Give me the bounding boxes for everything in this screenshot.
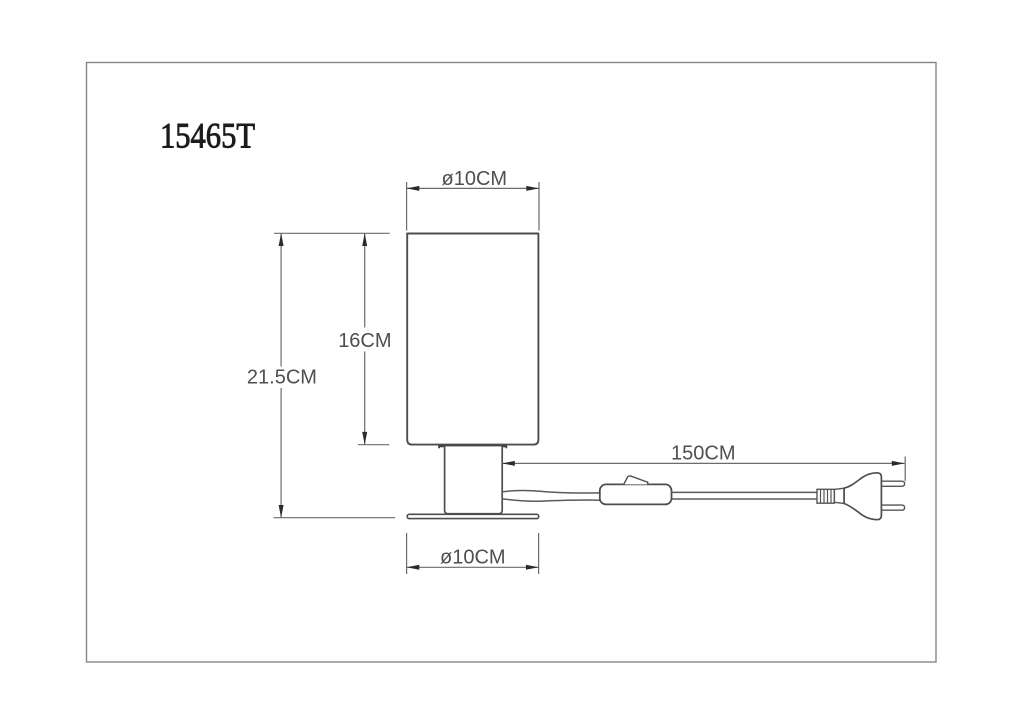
inline switch body <box>600 484 672 504</box>
shade collar line <box>439 446 506 448</box>
cord straight segment (switch to plug) <box>672 492 818 499</box>
svg-text:16CM: 16CM <box>338 330 391 352</box>
dim 21.5CM arrows <box>279 233 284 517</box>
plug collar <box>834 488 844 503</box>
dim top ø10CM line <box>407 187 539 189</box>
lamp stem <box>445 446 503 513</box>
dim bottom ø10CM extension lines <box>407 533 539 574</box>
dim bottom ø10CM line <box>407 566 539 568</box>
base plate <box>407 514 539 518</box>
svg-text:15465T: 15465T <box>160 115 255 155</box>
dim bottom ø10CM arrows <box>407 565 539 570</box>
dim shared top extension line <box>274 232 390 234</box>
dim top ø10CM arrows <box>407 186 539 191</box>
dim 16CM line <box>364 233 366 444</box>
dim top ø10CM extension lines <box>407 182 539 231</box>
plug strain relief ribs <box>817 489 834 503</box>
dim 150CM extension line <box>904 457 906 481</box>
svg-text:ø10CM: ø10CM <box>442 168 508 190</box>
plug body bell <box>844 473 881 520</box>
dim 16CM label <box>338 330 391 352</box>
title 15465T <box>160 115 255 155</box>
svg-text:21.5CM: 21.5CM <box>247 366 317 388</box>
dim 150CM label <box>671 443 735 465</box>
dim 21.5CM label <box>247 366 317 388</box>
dim 21.5CM bottom extension line <box>274 517 396 519</box>
svg-text:ø10CM: ø10CM <box>440 547 506 569</box>
svg-text:150CM: 150CM <box>671 443 735 465</box>
cord wavy segment (stem to switch) <box>502 490 600 501</box>
lamp shade <box>407 234 538 445</box>
border frame <box>87 63 937 663</box>
dim bottom ø10CM label <box>440 547 506 569</box>
dim 16CM bottom extension line <box>358 444 389 446</box>
dim 16CM arrows <box>362 233 367 444</box>
dim 150CM arrows <box>502 461 904 466</box>
dim 150CM line <box>502 462 904 464</box>
dim 21.5CM line <box>280 233 282 517</box>
plug pins <box>880 481 905 510</box>
switch toggle lever <box>624 476 648 484</box>
dim top ø10CM label <box>442 168 508 190</box>
